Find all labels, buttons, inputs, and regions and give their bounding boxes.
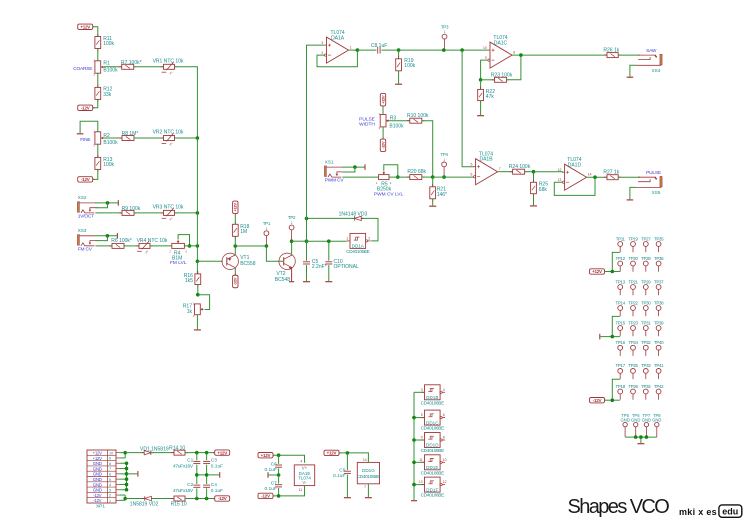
svg-text:R20 68k: R20 68k <box>407 169 426 175</box>
svg-text:TP13: TP13 <box>616 279 626 284</box>
wire R17 wiper loop <box>198 295 210 310</box>
svg-text:TP27: TP27 <box>641 236 651 241</box>
junction C4 bottom <box>205 497 209 501</box>
svg-text:B100k: B100k <box>103 68 118 74</box>
power flag +12V (R18) <box>233 201 238 214</box>
wire bus to DD1F <box>414 484 425 486</box>
junction DA1D out <box>593 175 597 179</box>
svg-text:R26 1k: R26 1k <box>603 47 619 53</box>
svg-text:13: 13 <box>558 178 562 182</box>
svg-text:GND: GND <box>93 461 102 466</box>
power flag -12V (DA1E) <box>258 493 273 498</box>
svg-text:1k: 1k <box>187 309 193 315</box>
testpoint TP26 <box>631 389 636 394</box>
svg-text:7: 7 <box>109 467 111 471</box>
svg-text:GND: GND <box>93 488 102 493</box>
wire VT1 collector to -12V <box>234 268 236 275</box>
svg-text:TP3: TP3 <box>441 24 449 29</box>
wire R15 to -12V flag <box>185 498 214 500</box>
wire R3 to -12V <box>382 127 384 139</box>
svg-text:TP33: TP33 <box>641 363 651 368</box>
svg-text:9: 9 <box>109 457 111 461</box>
resistor R19 <box>398 50 400 59</box>
wire XS2 tip to R9 <box>95 212 122 214</box>
svg-text:1: 1 <box>291 221 293 225</box>
resistor R22 <box>480 80 482 90</box>
testpoint TP13 <box>618 285 623 290</box>
svg-text:1: 1 <box>346 237 348 241</box>
svg-text:TP40: TP40 <box>654 340 664 345</box>
wire R5 to R20 <box>389 176 410 178</box>
testpoint TP12 <box>618 261 623 266</box>
wire GND pins bus <box>120 462 127 464</box>
testpoint TP31 <box>643 326 648 331</box>
svg-text:TP15: TP15 <box>616 320 626 325</box>
svg-text:TP11: TP11 <box>616 236 626 241</box>
jack XS3 <box>77 235 79 246</box>
wire XS3 switch arm <box>96 236 108 241</box>
capacitor C10 <box>328 241 330 261</box>
testpoint TP20 <box>631 261 636 266</box>
power flag +12V (DA1E) <box>258 453 273 458</box>
wire R12 to -12V <box>92 99 97 107</box>
terminator bar XS1 sleeve <box>364 164 366 170</box>
svg-text:6: 6 <box>109 472 111 476</box>
ground (XS5) <box>627 199 634 201</box>
testpoint TP18 <box>618 389 623 394</box>
wire unused-input bus <box>413 392 415 500</box>
junction +12V pin bus <box>123 451 127 455</box>
wire to VD2 <box>125 498 144 500</box>
svg-text:CD40106BE: CD40106BE <box>357 474 380 479</box>
svg-text:TP28: TP28 <box>641 256 651 261</box>
junction C7 bottom <box>277 494 281 498</box>
svg-text:XS3: XS3 <box>78 228 87 233</box>
svg-text:TP29: TP29 <box>641 279 651 284</box>
testpoint TP40 <box>656 345 661 350</box>
svg-text:C7: C7 <box>271 480 277 486</box>
junction bus DD1D <box>412 438 416 442</box>
wire R2 to R13 <box>97 144 99 157</box>
power flag +12V (TP matrix) <box>590 269 605 274</box>
transistor VT2 <box>279 253 295 269</box>
capacitor C4 <box>203 484 210 486</box>
svg-text:CD40106BE: CD40106BE <box>421 470 444 475</box>
wire -12V to DA1E <box>273 486 304 496</box>
testpoint TP7 GND <box>644 422 648 426</box>
svg-text:0.1uF: 0.1uF <box>265 467 277 473</box>
svg-text:COARSE: COARSE <box>73 66 92 72</box>
svg-text:XS4: XS4 <box>652 68 661 73</box>
svg-text:-12V: -12V <box>233 277 238 285</box>
wire DD1G to ground <box>367 484 369 497</box>
svg-text:C6: C6 <box>271 461 277 467</box>
wire TP1 node to VT2 base <box>266 246 283 261</box>
junction VD3/core <box>305 217 309 221</box>
junction DA1A out <box>356 48 360 52</box>
svg-text:PULSE: PULSE <box>646 170 661 176</box>
junction bus/VR3 <box>196 211 200 215</box>
potentiometer R1 COARSE <box>95 61 101 73</box>
capacitor C2 <box>193 484 200 486</box>
junction XS2 switch <box>106 201 110 205</box>
svg-text:DD1C: DD1C <box>426 420 439 425</box>
junction C1 top <box>195 451 199 455</box>
wire VT1 emitter <box>234 246 236 255</box>
svg-text:TP38: TP38 <box>654 300 664 305</box>
connector XP1 <box>87 450 116 503</box>
svg-text:+12V: +12V <box>327 451 337 456</box>
thermistor VR4 <box>139 243 150 248</box>
svg-text:TP14: TP14 <box>616 300 626 305</box>
svg-text:CD40106BE: CD40106BE <box>421 400 444 405</box>
svg-text:XS2: XS2 <box>78 195 87 200</box>
svg-text:XS1: XS1 <box>325 159 334 164</box>
wire +12V to R11 <box>92 27 97 37</box>
testpoint TP32 <box>643 345 648 350</box>
op-amp DA1D <box>565 164 587 190</box>
svg-text:SAW: SAW <box>646 48 657 54</box>
junction DA1C out <box>519 53 523 57</box>
resistor R26 <box>607 53 618 58</box>
svg-text:VR2 NTC 10k: VR2 NTC 10k <box>153 130 184 136</box>
svg-text:8: 8 <box>443 436 445 440</box>
ground (C9) <box>344 497 351 499</box>
svg-text:TP34: TP34 <box>641 384 651 389</box>
svg-text:DD1E: DD1E <box>426 465 438 470</box>
svg-text:R1: R1 <box>103 60 110 66</box>
wire R14 to +12V flag <box>185 452 214 454</box>
svg-text:3: 3 <box>321 41 323 45</box>
svg-text:TP39: TP39 <box>654 320 664 325</box>
svg-text:+12V: +12V <box>93 450 103 455</box>
wire R8 to VR2 <box>134 137 164 139</box>
svg-text:TP36: TP36 <box>654 256 664 261</box>
junction R5 loop <box>396 175 400 179</box>
diode VD3 1N4148 <box>355 216 362 220</box>
wire R3 wiper to R10 <box>389 120 410 122</box>
wire R1 to R12 <box>97 73 99 87</box>
svg-text:2: 2 <box>321 51 323 55</box>
svg-text:TP19: TP19 <box>628 236 638 241</box>
svg-text:1N5819 VD2: 1N5819 VD2 <box>130 501 159 507</box>
wire bus to R16 <box>196 261 198 274</box>
testpoint TP30 <box>643 306 648 311</box>
svg-text:-12V: -12V <box>81 106 90 111</box>
svg-text:OPTIONAL: OPTIONAL <box>334 264 360 270</box>
junction threshold <box>431 175 435 179</box>
svg-text:R7 100k*: R7 100k* <box>121 60 142 66</box>
wire +12V pins bus <box>120 452 126 454</box>
svg-text:-12V: -12V <box>261 494 270 499</box>
resistor R14 <box>174 450 185 455</box>
resistor R11 <box>95 37 101 49</box>
svg-text:1: 1 <box>109 499 111 503</box>
wire R2 wiper to R8 <box>104 137 122 139</box>
svg-text:TP12: TP12 <box>616 256 626 261</box>
schmitt inverter DD1D <box>425 433 441 448</box>
trimmer R17 <box>195 304 201 315</box>
wire GND TPs <box>625 436 657 438</box>
ground (C5) <box>303 281 310 283</box>
jack XS4 SAW out <box>660 54 662 65</box>
op-amp DA1A <box>327 37 349 63</box>
testpoint TP28 <box>643 261 648 266</box>
wire emitter node to TP1 <box>235 245 266 247</box>
svg-text:DA1D: DA1D <box>568 162 582 168</box>
schmitt inverter DD1C <box>425 410 441 425</box>
svg-text:0.1uF: 0.1uF <box>265 486 277 492</box>
testpoint TP11 <box>618 242 623 247</box>
svg-text:VD1 1N5819: VD1 1N5819 <box>140 447 169 453</box>
testpoint TP22 <box>631 306 636 311</box>
svg-text:VR1 NTC 10k: VR1 NTC 10k <box>153 59 184 65</box>
potentiometer R3 PULSE WIDTH <box>380 115 386 127</box>
wire XS3 tip to R6 <box>95 245 112 247</box>
wire to R23 <box>481 79 495 81</box>
svg-text:+12V: +12V <box>380 95 385 104</box>
wire bus to DD1E <box>414 461 425 463</box>
ground (C10) <box>325 281 332 283</box>
junction bus DD1C <box>412 416 416 420</box>
junction TP matrix mid <box>611 335 615 339</box>
svg-text:+12V: +12V <box>217 450 227 455</box>
svg-text:CD40106BE: CD40106BE <box>421 493 444 498</box>
junction C2 bottom <box>195 497 199 501</box>
svg-text:PWM CV LVL: PWM CV LVL <box>374 191 404 197</box>
svg-text:TP17: TP17 <box>616 363 626 368</box>
svg-text:R8 1M*: R8 1M* <box>122 131 139 137</box>
wire DA1A feedback <box>317 50 357 67</box>
resistor R12 <box>95 87 101 99</box>
wire caps mid <box>196 465 198 484</box>
resistor R9 <box>122 210 134 215</box>
terminator bar XS3 sleeve <box>116 233 118 239</box>
thermistor VR1 <box>164 64 175 69</box>
schmitt inverter DD1B <box>425 385 441 400</box>
svg-text:GND: GND <box>93 472 102 477</box>
ground (R25) <box>530 205 537 207</box>
svg-text:R27 1k: R27 1k <box>603 169 619 175</box>
testpoint TP15 <box>618 326 623 331</box>
power flag +12V (DD1G) <box>324 450 339 455</box>
testpoint TP36 <box>656 261 661 266</box>
wire R17 to ground <box>196 315 198 330</box>
junction TP4 <box>442 175 446 179</box>
svg-text:11: 11 <box>299 488 303 492</box>
junction bus/VT1 base <box>196 260 200 264</box>
wire XS1 switch arm <box>343 167 355 172</box>
svg-text:R9 100k: R9 100k <box>122 206 141 212</box>
wire XS1 sleeve <box>342 166 365 168</box>
svg-text:DD1D: DD1D <box>426 443 439 448</box>
op-amp DA1C <box>490 42 512 68</box>
svg-text:VR3 NTC 10k: VR3 NTC 10k <box>153 204 184 210</box>
wire VR2 to bus <box>175 137 198 139</box>
svg-text:1: 1 <box>266 227 268 231</box>
svg-text:DA1A: DA1A <box>331 35 345 41</box>
resistor R16 <box>195 274 201 285</box>
wire bus to DD1C <box>414 417 425 419</box>
testpoint TP4 <box>442 162 447 167</box>
wire core node to C10/DD1A <box>307 240 347 242</box>
terminator bar C6/C7 <box>267 472 269 478</box>
testpoint TP5 GND <box>623 422 627 426</box>
junction XS1 switch <box>353 165 357 169</box>
junctions GND bus <box>125 461 129 465</box>
testpoint TP19 <box>631 242 636 247</box>
svg-text:TP41: TP41 <box>654 363 664 368</box>
svg-text:100k: 100k <box>404 63 415 69</box>
svg-text:TP32: TP32 <box>641 340 651 345</box>
junction -12V pin bus <box>123 497 127 501</box>
svg-text:47k: 47k <box>486 94 495 100</box>
wire VD2 to R15 <box>152 498 174 500</box>
svg-text:CD40106BE: CD40106BE <box>421 448 444 453</box>
svg-text:TP1: TP1 <box>263 221 271 226</box>
svg-text:CD40106BE: CD40106BE <box>346 249 369 254</box>
schmitt inverter DD1F <box>425 477 441 492</box>
svg-text:+12V: +12V <box>261 453 271 458</box>
ground (XS4) <box>627 76 634 78</box>
wire VT2 to core node <box>292 240 307 242</box>
svg-text:2: 2 <box>109 494 111 498</box>
svg-text:DA1C: DA1C <box>494 40 508 46</box>
svg-text:14: 14 <box>363 458 367 462</box>
testpoint TP1 <box>264 231 269 236</box>
svg-text:C8 1uF: C8 1uF <box>371 43 387 49</box>
wire XS4 sleeve to ground <box>630 65 636 76</box>
svg-text:R23 100k: R23 100k <box>491 72 513 78</box>
jack XS5 PULSE out <box>660 176 662 187</box>
testpoint TP24 <box>631 345 636 350</box>
wire R18 to emitter node <box>234 236 236 246</box>
svg-text:C2: C2 <box>187 482 193 488</box>
capacitor C6 <box>278 455 280 464</box>
ground (R22) <box>477 115 484 117</box>
capacitor C7 <box>278 475 280 484</box>
power block DA1E <box>294 465 314 486</box>
svg-text:2.2nF*: 2.2nF* <box>312 264 327 270</box>
testpoint TP17 <box>618 369 623 374</box>
junction R16/R17 loop <box>196 293 200 297</box>
junction C10 <box>327 239 331 243</box>
wire -12V to TP17/TP18 <box>605 399 620 401</box>
svg-text:10: 10 <box>483 46 487 50</box>
wire DA1D out <box>587 176 607 178</box>
wire XS3 sleeve <box>95 235 117 237</box>
wire CV bus <box>196 138 198 261</box>
junction TP matrix +12V <box>611 270 615 274</box>
svg-text:R24 100k: R24 100k <box>509 164 531 170</box>
svg-text:4: 4 <box>109 483 111 487</box>
junctions GND TPs <box>634 435 638 439</box>
testpoint TP38 <box>656 306 661 311</box>
svg-text:0.1uF: 0.1uF <box>211 463 223 469</box>
ground (DD1G) <box>365 497 372 499</box>
svg-text:14: 14 <box>588 173 592 177</box>
diode VD2 1N5819 <box>145 496 152 500</box>
svg-text:DA1B: DA1B <box>479 157 493 163</box>
potentiometer R2 FINE <box>95 132 101 144</box>
svg-text:2: 2 <box>368 237 370 241</box>
wire VR4 to R4 <box>150 245 172 247</box>
wire R6 to VR4 <box>124 245 139 247</box>
wire R9 to VR3 <box>134 212 164 214</box>
svg-text:GND: GND <box>620 418 629 423</box>
testpoint TP14 <box>618 306 623 311</box>
resistor R7 <box>122 64 134 69</box>
svg-text:TP21: TP21 <box>628 279 638 284</box>
svg-text:TP35: TP35 <box>654 236 664 241</box>
wire +12V to TP11/TP12 <box>605 271 620 273</box>
svg-text:TP4: TP4 <box>440 152 448 157</box>
svg-text:1: 1 <box>443 158 445 162</box>
transistor VT1 <box>222 253 238 269</box>
junction R4 loop <box>188 244 192 248</box>
svg-text:1M: 1M <box>240 229 247 235</box>
testpoint TP6 GND <box>634 422 638 426</box>
wire bus to DD1B <box>414 391 425 393</box>
svg-text:GND: GND <box>93 477 102 482</box>
svg-text:TP31: TP31 <box>641 320 651 325</box>
svg-text:1N4148 VD3: 1N4148 VD3 <box>339 212 368 218</box>
capacitor C3 <box>206 453 208 461</box>
ground (fine pot top) <box>80 121 98 133</box>
wire R16 to R17 <box>197 285 199 295</box>
svg-text:TP42: TP42 <box>654 384 664 389</box>
power flag +12V (rail) <box>215 450 230 455</box>
wire threshold to DA1B- <box>433 176 474 178</box>
svg-text:146*: 146* <box>437 192 447 198</box>
resistor R20 <box>410 175 422 180</box>
resistor R18 <box>232 224 238 236</box>
wire DD1A out <box>361 218 378 241</box>
svg-text:13: 13 <box>419 480 423 484</box>
svg-text:mki x es: mki x es <box>679 507 717 517</box>
wire +12V to DA1E <box>273 455 304 463</box>
svg-text:6: 6 <box>471 173 473 177</box>
svg-text:R10 100k: R10 100k <box>407 113 429 119</box>
wire -12V pins bus <box>120 494 126 496</box>
svg-text:10: 10 <box>109 451 113 455</box>
svg-text:4: 4 <box>443 388 445 392</box>
junction C6 top <box>277 453 281 457</box>
svg-text:CD40106BE: CD40106BE <box>421 426 444 431</box>
svg-text:DD1F: DD1F <box>426 487 438 492</box>
svg-text:R14 10: R14 10 <box>169 445 185 451</box>
testpoint TP35 <box>656 242 661 247</box>
svg-text:TP37: TP37 <box>654 279 664 284</box>
thermistor VR3 <box>164 210 175 215</box>
testpoint TP23 <box>631 326 636 331</box>
svg-text:DD1A: DD1A <box>352 244 365 249</box>
svg-text:TP26: TP26 <box>628 384 638 389</box>
svg-text:10: 10 <box>443 458 447 462</box>
svg-text:12: 12 <box>443 480 447 484</box>
testpoint TP34 <box>643 389 648 394</box>
power block DD1G <box>357 462 379 483</box>
wire tap to DA1B+ <box>462 50 473 167</box>
svg-text:+12V: +12V <box>592 269 602 274</box>
resistor R21 <box>432 177 434 187</box>
svg-text:TP24: TP24 <box>628 340 638 345</box>
wire GND bus out <box>127 473 138 475</box>
ground (R17) <box>194 329 201 331</box>
svg-text:9: 9 <box>485 56 487 60</box>
ground (R21) <box>429 205 436 207</box>
wire R1 wiper to R7 <box>104 66 122 68</box>
